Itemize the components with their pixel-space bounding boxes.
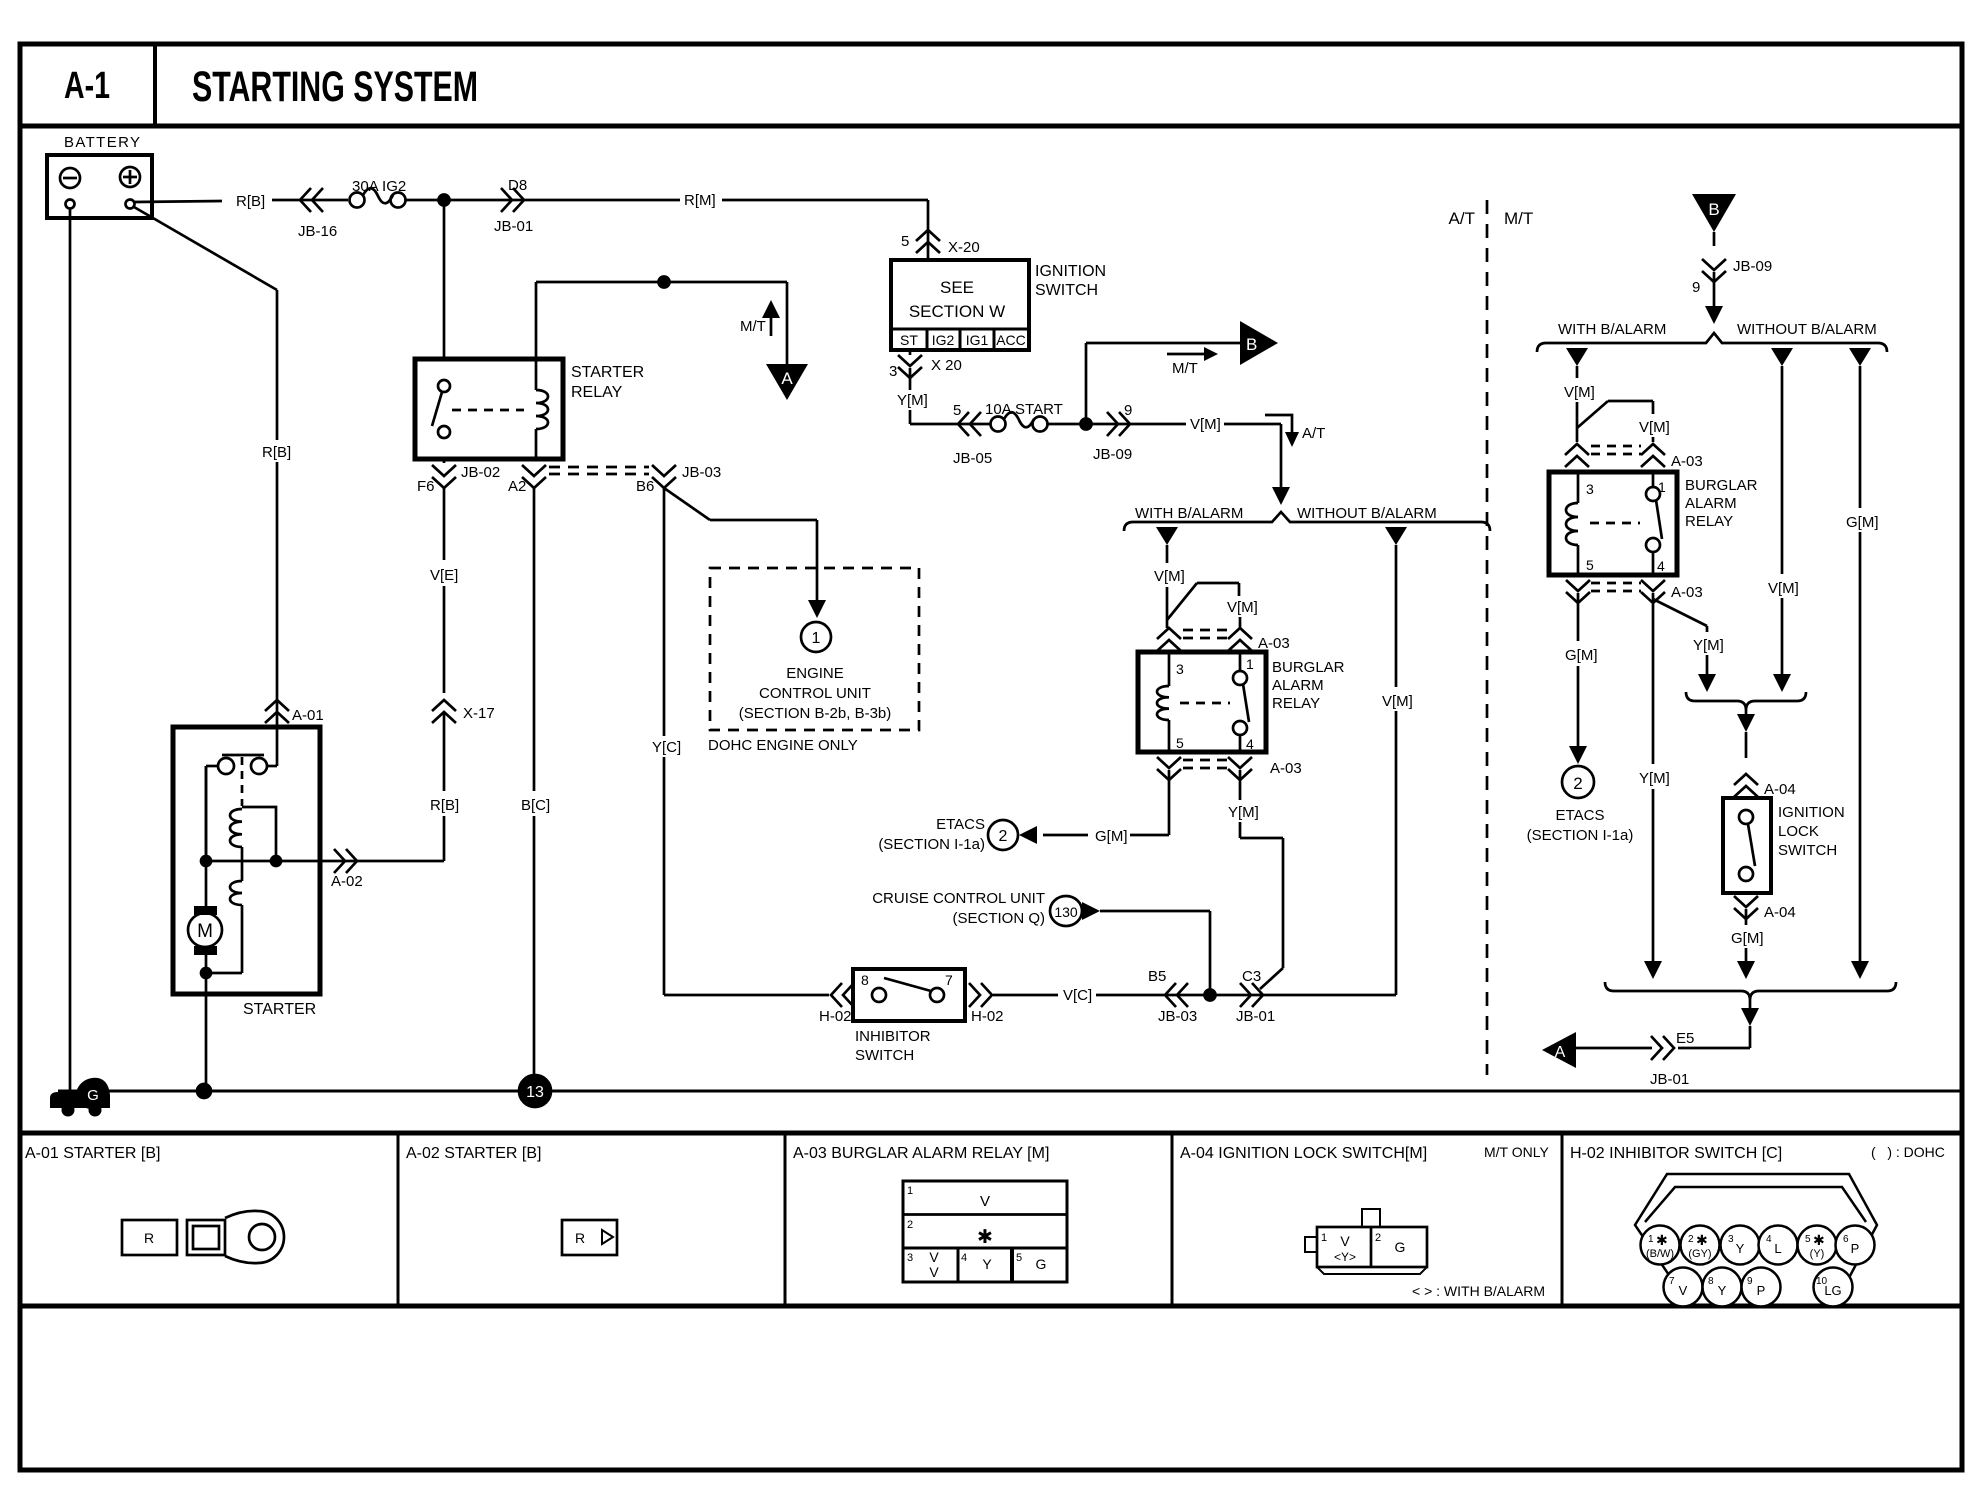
svg-text:STARTING SYSTEM: STARTING SYSTEM — [192, 63, 478, 111]
svg-text:JB-01: JB-01 — [1650, 1071, 1689, 1088]
svg-text:V: V — [980, 1193, 990, 1210]
svg-text:B: B — [1246, 335, 1257, 354]
svg-text:JB-03: JB-03 — [1158, 1008, 1197, 1025]
svg-text:Y[M]: Y[M] — [1228, 804, 1259, 821]
svg-text:Y: Y — [982, 1256, 992, 1272]
svg-text:R: R — [575, 1230, 585, 1246]
svg-text:13: 13 — [526, 1084, 544, 1101]
svg-text:5: 5 — [1016, 1252, 1022, 1264]
svg-text:3: 3 — [907, 1252, 913, 1264]
svg-text:JB-02: JB-02 — [461, 464, 500, 481]
svg-text:B[C]: B[C] — [521, 797, 550, 814]
svg-text:DOHC ENGINE ONLY: DOHC ENGINE ONLY — [708, 737, 858, 754]
svg-text:Y[C]: Y[C] — [652, 739, 681, 756]
svg-text:H-02 INHIBITOR SWITCH [C]: H-02 INHIBITOR SWITCH [C] — [1570, 1145, 1782, 1162]
svg-text:JB-01: JB-01 — [1236, 1008, 1275, 1025]
svg-text:✱: ✱ — [977, 1227, 993, 1248]
svg-text:SWITCH: SWITCH — [855, 1047, 914, 1064]
svg-text:2: 2 — [999, 828, 1008, 845]
svg-text:R[B]: R[B] — [430, 797, 459, 814]
svg-text:4: 4 — [1246, 736, 1254, 752]
svg-text:3: 3 — [1176, 661, 1184, 677]
svg-text:5: 5 — [901, 233, 909, 250]
svg-text:5: 5 — [953, 402, 961, 419]
svg-text:P: P — [1851, 1241, 1860, 1256]
svg-text:A-1: A-1 — [64, 65, 110, 107]
svg-text:BATTERY: BATTERY — [64, 134, 140, 151]
svg-text:R[B]: R[B] — [236, 193, 265, 210]
svg-text:4: 4 — [961, 1252, 967, 1264]
svg-text:G: G — [1395, 1239, 1406, 1255]
svg-text:2: 2 — [907, 1219, 913, 1231]
svg-text:ST: ST — [900, 332, 918, 348]
svg-text:Y[M]: Y[M] — [1693, 637, 1724, 654]
svg-text:A2: A2 — [508, 478, 526, 495]
svg-text:✱: ✱ — [1813, 1232, 1825, 1248]
svg-text:Y[M]: Y[M] — [897, 392, 928, 409]
svg-text:ALARM: ALARM — [1272, 677, 1324, 694]
svg-text:STARTER: STARTER — [243, 1001, 316, 1018]
svg-text:5: 5 — [1805, 1234, 1811, 1245]
svg-text:(SECTION Q): (SECTION Q) — [953, 910, 1046, 927]
svg-text:WITHOUT B/ALARM: WITHOUT B/ALARM — [1737, 321, 1877, 338]
svg-text:(SECTION I-1a): (SECTION I-1a) — [1527, 827, 1634, 844]
svg-text:CONTROL UNIT: CONTROL UNIT — [759, 685, 871, 702]
svg-text:V: V — [929, 1264, 939, 1280]
svg-text:A/T: A/T — [1302, 425, 1325, 442]
svg-text:A-04: A-04 — [1764, 904, 1796, 921]
svg-text:P: P — [1757, 1283, 1766, 1298]
svg-text:X-20: X-20 — [948, 239, 980, 256]
svg-text:3: 3 — [1728, 1234, 1734, 1245]
svg-text:V: V — [929, 1249, 939, 1265]
svg-text:7: 7 — [945, 972, 953, 988]
svg-text:B5: B5 — [1148, 968, 1166, 985]
svg-text:IG1: IG1 — [966, 332, 989, 348]
svg-text:(SECTION I-1a): (SECTION I-1a) — [878, 836, 985, 853]
svg-text:A-02 STARTER [B]: A-02 STARTER [B] — [406, 1145, 541, 1162]
svg-text:Y: Y — [1718, 1283, 1727, 1298]
svg-text:JB-01: JB-01 — [494, 218, 533, 235]
svg-text:RELAY: RELAY — [571, 384, 623, 401]
svg-text:M/T ONLY: M/T ONLY — [1484, 1144, 1549, 1160]
svg-text:G[M]: G[M] — [1846, 514, 1879, 531]
svg-text:L: L — [1774, 1241, 1781, 1256]
svg-text:ACC: ACC — [996, 332, 1026, 348]
svg-text:G: G — [1036, 1256, 1047, 1272]
svg-text:(GY): (GY) — [1688, 1248, 1711, 1260]
svg-text:M: M — [197, 921, 213, 942]
svg-text:A-01 STARTER [B]: A-01 STARTER [B] — [25, 1145, 160, 1162]
svg-text:(Y): (Y) — [1810, 1248, 1825, 1260]
svg-text:G: G — [87, 1087, 99, 1104]
svg-text:2: 2 — [1573, 774, 1582, 793]
svg-text:B: B — [1708, 200, 1719, 219]
svg-text:A-03: A-03 — [1671, 453, 1703, 470]
svg-text:CRUISE CONTROL UNIT: CRUISE CONTROL UNIT — [872, 890, 1045, 907]
svg-text:SECTION W: SECTION W — [909, 302, 1005, 321]
svg-text:WITHOUT B/ALARM: WITHOUT B/ALARM — [1297, 505, 1437, 522]
svg-text:A: A — [1555, 1044, 1566, 1061]
svg-text:1: 1 — [812, 630, 821, 647]
svg-text:ETACS: ETACS — [936, 816, 985, 833]
svg-text:STARTER: STARTER — [571, 364, 644, 381]
svg-text:2: 2 — [1375, 1232, 1381, 1244]
svg-text:4: 4 — [1657, 558, 1665, 574]
svg-text:A/T: A/T — [1449, 209, 1475, 228]
svg-text:A-02: A-02 — [331, 873, 363, 890]
svg-text:5: 5 — [1176, 735, 1184, 751]
svg-text:IGNITION: IGNITION — [1035, 263, 1106, 280]
svg-text:R: R — [144, 1230, 154, 1246]
svg-text:V[M]: V[M] — [1564, 384, 1595, 401]
svg-text:RELAY: RELAY — [1685, 513, 1733, 530]
svg-text:7: 7 — [1669, 1276, 1675, 1287]
svg-text:D8: D8 — [508, 177, 527, 194]
svg-text:SEE: SEE — [940, 278, 974, 297]
svg-text:RELAY: RELAY — [1272, 695, 1320, 712]
svg-text:LG: LG — [1824, 1283, 1841, 1298]
svg-text:X 20: X 20 — [931, 357, 962, 374]
svg-text:G[M]: G[M] — [1095, 828, 1128, 845]
svg-text:V[M]: V[M] — [1227, 599, 1258, 616]
svg-text:WITH B/ALARM: WITH B/ALARM — [1135, 505, 1243, 522]
svg-text:1: 1 — [1246, 656, 1254, 672]
svg-text:A-03: A-03 — [1270, 760, 1302, 777]
svg-text:ENGINE: ENGINE — [786, 665, 844, 682]
svg-text:V: V — [1679, 1283, 1688, 1298]
svg-text:H-02: H-02 — [971, 1008, 1004, 1025]
svg-text:V[M]: V[M] — [1639, 419, 1670, 436]
svg-text:A-04: A-04 — [1764, 781, 1796, 798]
svg-text:WITH B/ALARM: WITH B/ALARM — [1558, 321, 1666, 338]
svg-text:130: 130 — [1054, 904, 1078, 920]
svg-text:9: 9 — [1692, 279, 1700, 296]
svg-text:10A START: 10A START — [985, 401, 1063, 418]
svg-text:C3: C3 — [1242, 968, 1261, 985]
svg-text:V[M]: V[M] — [1190, 416, 1221, 433]
svg-text:M/T: M/T — [1504, 209, 1533, 228]
svg-text:(SECTION B-2b, B-3b): (SECTION B-2b, B-3b) — [739, 705, 892, 722]
svg-text:< > : WITH B/ALARM: < > : WITH B/ALARM — [1412, 1283, 1545, 1299]
svg-text:A-03: A-03 — [1671, 584, 1703, 601]
svg-text:✱: ✱ — [1696, 1232, 1708, 1248]
svg-text:F6: F6 — [417, 478, 435, 495]
svg-text:8: 8 — [1708, 1276, 1714, 1287]
svg-text:M/T: M/T — [1172, 360, 1198, 377]
svg-text:INHIBITOR: INHIBITOR — [855, 1028, 931, 1045]
svg-text:V: V — [1340, 1233, 1350, 1249]
svg-text:JB-03: JB-03 — [682, 464, 721, 481]
svg-text:V[E]: V[E] — [430, 567, 458, 584]
svg-text:(B/W): (B/W) — [1646, 1248, 1674, 1260]
svg-text:<Y>: <Y> — [1334, 1250, 1356, 1264]
svg-text:X-17: X-17 — [463, 705, 495, 722]
svg-text:6: 6 — [1843, 1234, 1849, 1245]
svg-text:LOCK: LOCK — [1778, 823, 1819, 840]
svg-text:E5: E5 — [1676, 1030, 1694, 1047]
svg-text:BURGLAR: BURGLAR — [1685, 477, 1758, 494]
svg-text:9: 9 — [1747, 1276, 1753, 1287]
svg-text:3: 3 — [1586, 481, 1594, 497]
svg-text:A-01: A-01 — [292, 707, 324, 724]
svg-text:SWITCH: SWITCH — [1035, 282, 1098, 299]
svg-text:JB-05: JB-05 — [953, 450, 992, 467]
svg-text:8: 8 — [861, 972, 869, 988]
svg-text:✱: ✱ — [1656, 1232, 1668, 1248]
svg-text:3: 3 — [889, 363, 897, 380]
svg-text:1: 1 — [1648, 1234, 1654, 1245]
svg-text:A-03 BURGLAR ALARM RELAY [M]: A-03 BURGLAR ALARM RELAY [M] — [793, 1145, 1049, 1162]
svg-text:V[M]: V[M] — [1768, 580, 1799, 597]
svg-text:9: 9 — [1124, 402, 1132, 419]
svg-text:ALARM: ALARM — [1685, 495, 1737, 512]
svg-text:JB-16: JB-16 — [298, 223, 337, 240]
svg-text:V[M]: V[M] — [1154, 568, 1185, 585]
svg-text:G[M]: G[M] — [1731, 930, 1764, 947]
svg-text:Y: Y — [1736, 1241, 1745, 1256]
svg-text:( ) : DOHC: ( ) : DOHC — [1871, 1144, 1945, 1160]
svg-text:H-02: H-02 — [819, 1008, 852, 1025]
svg-text:A-03: A-03 — [1258, 635, 1290, 652]
svg-text:R[B]: R[B] — [262, 444, 291, 461]
svg-text:M/T: M/T — [740, 318, 766, 335]
svg-text:JB-09: JB-09 — [1093, 446, 1132, 463]
svg-text:1: 1 — [907, 1185, 913, 1197]
svg-text:BURGLAR: BURGLAR — [1272, 659, 1345, 676]
svg-text:JB-09: JB-09 — [1733, 258, 1772, 275]
svg-text:B6: B6 — [636, 478, 654, 495]
svg-text:IGNITION: IGNITION — [1778, 804, 1845, 821]
svg-text:A: A — [781, 369, 793, 388]
svg-text:R[M]: R[M] — [684, 192, 716, 209]
svg-text:IG2: IG2 — [932, 332, 955, 348]
svg-text:V[C]: V[C] — [1063, 987, 1092, 1004]
svg-text:4: 4 — [1766, 1234, 1772, 1245]
svg-text:ETACS: ETACS — [1556, 807, 1605, 824]
svg-text:V[M]: V[M] — [1382, 693, 1413, 710]
svg-text:1: 1 — [1321, 1232, 1327, 1244]
svg-text:G[M]: G[M] — [1565, 647, 1598, 664]
svg-text:Y[M]: Y[M] — [1639, 770, 1670, 787]
svg-text:2: 2 — [1688, 1234, 1694, 1245]
svg-text:5: 5 — [1586, 557, 1594, 573]
svg-text:SWITCH: SWITCH — [1778, 842, 1837, 859]
svg-text:A-04 IGNITION LOCK SWITCH[M]: A-04 IGNITION LOCK SWITCH[M] — [1180, 1145, 1427, 1162]
